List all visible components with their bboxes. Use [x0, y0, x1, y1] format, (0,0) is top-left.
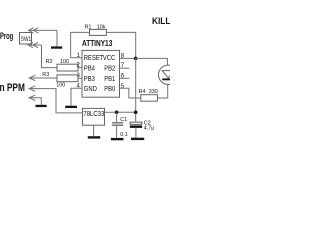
resistor R4 [141, 95, 158, 102]
arrow PPM ground [29, 95, 41, 105]
svg-text:VCC: VCC [103, 55, 116, 63]
switch SW1 pin 2 arrow (bottom, double chevron) [28, 42, 41, 47]
node regulator out junction [134, 111, 138, 115]
wire pin 6 stub [120, 77, 130, 79]
svg-text:4.7µ: 4.7µ [144, 126, 155, 132]
svg-text:R2: R2 [46, 59, 53, 65]
capacitor C2 electrolytic [130, 122, 142, 124]
svg-text:RESET: RESET [84, 55, 104, 63]
arrow PPM plus [29, 86, 82, 113]
ground bar (C1) [111, 138, 124, 140]
node C1 junction [115, 111, 119, 115]
switch SW1 pin 1 arrow (top, double chevron) [29, 28, 57, 33]
svg-text:330: 330 [149, 89, 158, 95]
wire pin 4 GND [71, 88, 82, 105]
LED D1 [159, 65, 178, 84]
resistor R2 [57, 64, 78, 71]
resistor R1 [90, 29, 107, 35]
svg-text:78LC33: 78LC33 [83, 111, 104, 119]
wire regulator ground [93, 125, 95, 136]
wire SW1 top to ground [56, 30, 58, 46]
wire R2 to pin2 [78, 67, 82, 69]
wire R3 to pin3 [78, 77, 82, 79]
svg-text:C1: C1 [120, 117, 127, 123]
capacitor C1 [116, 112, 118, 122]
svg-text:SW1: SW1 [21, 37, 31, 44]
wire pin 5 to R4 [120, 88, 141, 98]
svg-text:PB0: PB0 [104, 86, 115, 94]
svg-text:R4: R4 [139, 89, 146, 95]
switch SW1 body [20, 33, 32, 45]
arrow PPM signal [29, 75, 57, 80]
IC U1 body [82, 50, 120, 97]
svg-text:n PPM: n PPM [0, 82, 25, 95]
wire pin 8 VCC [120, 57, 136, 59]
ground bar (C2) [131, 138, 144, 140]
wire R1 right to VCC net [106, 32, 135, 58]
svg-text:R1: R1 [85, 24, 92, 30]
svg-text:PB3: PB3 [84, 75, 95, 83]
svg-text:PB4: PB4 [84, 65, 95, 73]
svg-text:100: 100 [56, 83, 65, 89]
svg-text:PB1: PB1 [104, 75, 115, 83]
node VCC junction [134, 57, 138, 61]
svg-text:0.1: 0.1 [120, 132, 128, 138]
svg-text:10k: 10k [97, 24, 106, 30]
wire pin 7 stub [120, 67, 130, 69]
wire R4 to LED cathode [158, 85, 168, 98]
ground bar (pin4) [65, 106, 77, 108]
regulator U2 78LC33 body [83, 108, 105, 125]
resistor R3 [57, 75, 78, 82]
wire regulator output [105, 111, 136, 113]
ground bar (SW1) [51, 46, 62, 48]
ground bar (regulator) [88, 136, 100, 138]
wire VCC vertical down [135, 58, 137, 122]
wire R1 left to pin1 [71, 32, 90, 57]
svg-text:GND: GND [84, 86, 97, 94]
wire VCC to LED anode [136, 58, 168, 65]
svg-text:KILL: KILL [152, 16, 170, 27]
svg-text:ATTINY13: ATTINY13 [82, 38, 112, 48]
svg-text:R3: R3 [42, 72, 49, 78]
svg-text:100: 100 [60, 59, 69, 65]
ground bar (PPM) [36, 105, 47, 107]
svg-text:PB2: PB2 [104, 65, 115, 73]
svg-text:Prog: Prog [0, 31, 13, 42]
wire SW1 bottom down to R2 [42, 45, 58, 68]
